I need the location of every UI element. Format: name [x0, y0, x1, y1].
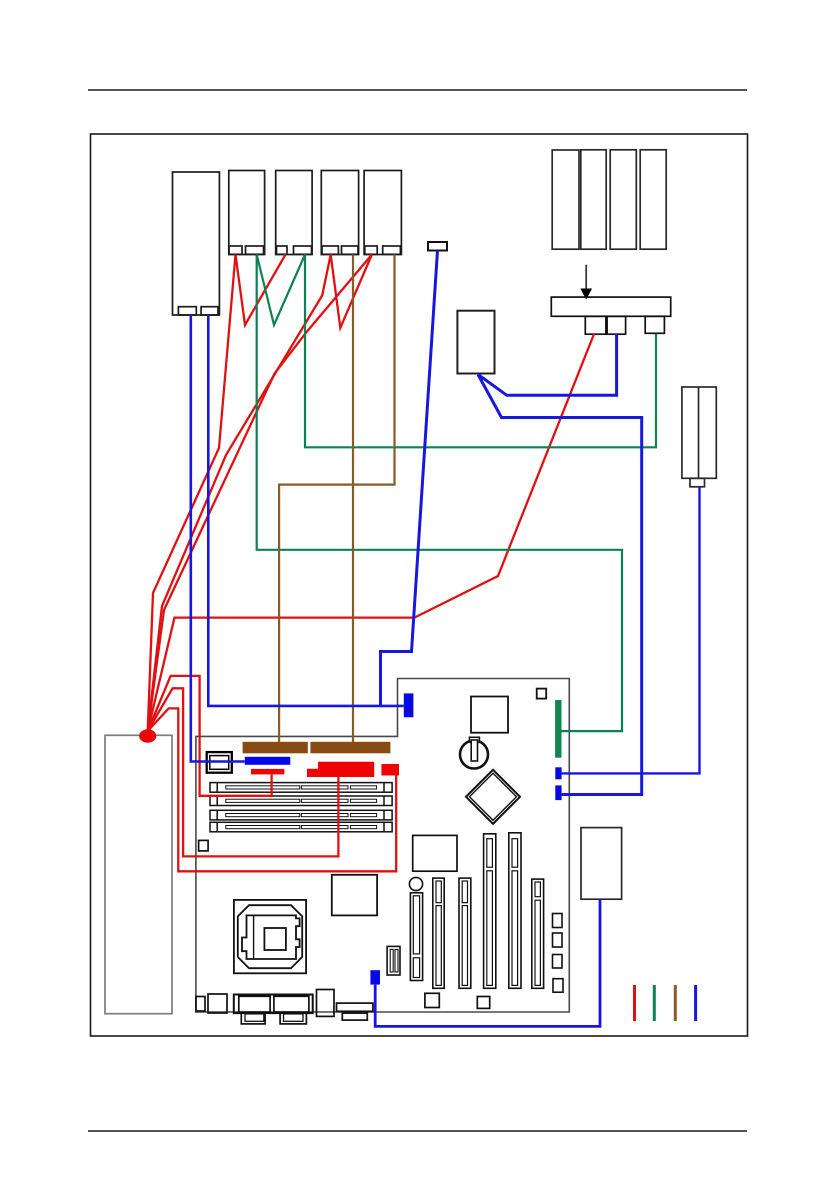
wire green zigzag drive2-drive3	[257, 255, 305, 326]
drive bay 3	[276, 171, 312, 255]
DIMM slot 1	[210, 783, 392, 793]
card slot 2 top right	[581, 150, 606, 249]
AGP slot	[410, 893, 422, 981]
DIMM slot 3	[210, 810, 392, 820]
small red power connector	[251, 769, 284, 775]
IO small port	[208, 994, 227, 1013]
IO wide low port lower	[342, 1013, 367, 1020]
small square top right of board	[537, 689, 547, 699]
legend brown line	[674, 985, 677, 1021]
slot screw square 1	[425, 993, 439, 1007]
wire brown drive4 to IDE bar2	[352, 255, 354, 743]
module box bottom right	[581, 828, 622, 900]
wire red to small red connector	[148, 676, 272, 796]
power supply unit box	[105, 735, 172, 1013]
switch box	[457, 311, 494, 374]
DIMM slot 4	[210, 822, 392, 832]
heatsink square	[332, 875, 377, 916]
green connector bar	[555, 700, 561, 758]
aux red connector	[381, 764, 399, 776]
card slot 1 top right	[552, 150, 579, 249]
bottom rule	[88, 1130, 747, 1132]
CPU socket	[234, 900, 306, 973]
CNR connector small	[387, 946, 400, 975]
card slot 4 top right	[640, 150, 666, 249]
chipset diamond	[466, 770, 520, 824]
battery	[460, 737, 488, 768]
legend green line	[653, 985, 656, 1021]
slot screw square 2	[477, 997, 489, 1009]
right edge small rect 1	[553, 914, 563, 928]
blue jumper square	[370, 970, 380, 984]
drive bay 2	[229, 171, 265, 255]
wire blue jumper to module box	[375, 899, 600, 1026]
DIMM slot 2	[210, 796, 392, 806]
junction dot	[139, 729, 156, 742]
wire red to ATX connector	[148, 688, 339, 856]
right edge small rect 4	[553, 979, 563, 993]
IDE connector bar 2	[310, 742, 390, 754]
PCI slot 2	[459, 878, 471, 988]
wire red zigzag drive4-drive5	[331, 255, 372, 328]
motherboard outline	[196, 679, 569, 1013]
PCI slot 3 tall	[484, 834, 496, 989]
PCI slot 5	[532, 879, 544, 988]
blue front panel connector	[404, 693, 414, 717]
PCI slot 1	[433, 878, 444, 988]
wire red to drive4	[148, 255, 331, 732]
IO tiny port	[196, 997, 205, 1012]
figure frame	[91, 134, 748, 1036]
wire red to aux red connector	[148, 708, 397, 871]
blue rect connector 1 on board right	[555, 767, 561, 779]
AGP bracket square	[413, 835, 457, 871]
power strip pad 3	[645, 316, 664, 333]
wire red chain A to drive2	[148, 255, 236, 732]
legend red line	[633, 985, 636, 1021]
IDE connector bar 1	[243, 742, 308, 754]
legend blue line	[694, 985, 697, 1021]
IO tall port	[317, 990, 335, 1017]
wire blue drive1 pad2 to blue connector	[208, 315, 403, 706]
BIOS chip	[471, 697, 508, 733]
right edge small rect 3	[553, 955, 563, 969]
wire blue switch box to power strip pad2	[478, 334, 617, 395]
top rule	[88, 89, 747, 91]
IO wide low port	[337, 1003, 373, 1011]
power strip pad 1	[585, 316, 606, 334]
card slot 3 top right	[610, 150, 636, 249]
wire green drive3 to power strip pad3	[305, 255, 656, 448]
drive bay 5	[364, 171, 401, 255]
floppy connector bar blue	[245, 757, 290, 765]
split module box right	[682, 387, 716, 487]
power strip box	[551, 297, 670, 316]
wire brown drive5 to IDE bar1	[279, 255, 394, 743]
drive bay 1 (floppy drive)	[173, 172, 220, 315]
wire blue top connector to blue connector	[381, 251, 438, 706]
wire red to drive5	[148, 255, 372, 732]
IO keyboard mouse block	[234, 995, 313, 1024]
wire red to power strip	[148, 334, 594, 731]
drive bay 4	[321, 171, 358, 255]
socket box on left edge	[207, 752, 232, 773]
arrow	[580, 265, 592, 300]
small connector box top middle	[428, 242, 447, 251]
jumper square below DIMMs	[199, 840, 209, 851]
blue rect connector 2 on board right	[555, 785, 561, 800]
wire green drive2 to green bar	[257, 255, 622, 732]
wire blue drive1 pad1 to floppy bar	[191, 315, 245, 762]
round socket	[409, 877, 422, 890]
wire red zigzag drive2-drive3	[236, 255, 286, 326]
right edge small rect 2	[553, 933, 563, 947]
wire blue split module to blue rect1	[562, 487, 700, 773]
power strip pad 2	[607, 316, 626, 334]
ATX power connector red	[307, 762, 374, 777]
wire blue switch box to blue rect2	[478, 375, 642, 795]
PCI slot 4 tall	[509, 833, 521, 989]
